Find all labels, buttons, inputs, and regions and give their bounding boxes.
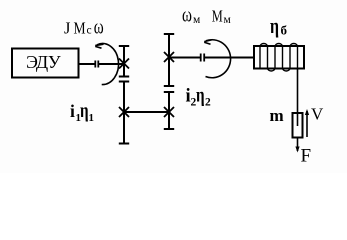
svg-text:F: F <box>301 146 312 167</box>
svg-text:1: 1 <box>89 112 95 124</box>
svg-text:м: м <box>193 14 201 26</box>
svg-text:M: M <box>74 19 86 38</box>
svg-text:η: η <box>270 15 279 39</box>
svg-text:J: J <box>64 19 71 38</box>
svg-text:ω: ω <box>182 3 192 26</box>
svg-text:М: М <box>212 8 223 26</box>
svg-text:2: 2 <box>205 97 211 109</box>
svg-text:м: м <box>224 14 232 26</box>
svg-text:i: i <box>70 101 75 121</box>
svg-text:η: η <box>196 83 205 106</box>
svg-text:m: m <box>270 106 284 125</box>
svg-text:ЭДУ: ЭДУ <box>26 52 61 72</box>
svg-text:V: V <box>311 105 324 124</box>
svg-text:η: η <box>80 99 89 122</box>
svg-text:б: б <box>281 23 288 38</box>
svg-text:ω: ω <box>94 15 104 38</box>
svg-text:с: с <box>87 25 92 37</box>
